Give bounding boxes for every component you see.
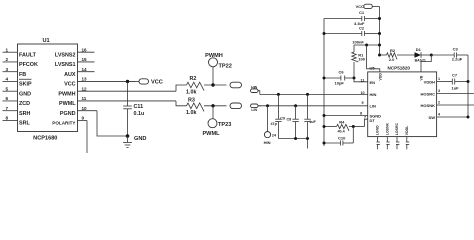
svg-text:PWMH: PWMH <box>58 91 75 97</box>
svg-text:SRH: SRH <box>19 111 30 117</box>
pin 5 GND <box>3 86 32 97</box>
svg-text:GND: GND <box>19 91 31 97</box>
pin VDD top <box>378 73 382 81</box>
svg-text:5: 5 <box>6 86 9 91</box>
pin 14 AUX <box>64 67 94 78</box>
svg-text:1uF: 1uF <box>452 86 460 91</box>
svg-text:NCP1680: NCP1680 <box>33 135 57 141</box>
svg-text:8: 8 <box>360 111 362 115</box>
node VB junction <box>430 54 433 57</box>
capacitor C6 <box>323 69 356 85</box>
pin 1 FAULT <box>3 47 37 58</box>
svg-text:11: 11 <box>82 96 87 101</box>
pin 15 LVSNS1 <box>55 57 95 68</box>
svg-text:C10: C10 <box>338 136 346 141</box>
svg-text:9: 9 <box>82 116 85 121</box>
svg-text:LVSNS1: LVSNS1 <box>55 62 76 68</box>
svg-text:LOSRC: LOSRC <box>395 122 399 135</box>
wire R2 out <box>204 84 227 86</box>
wire R1 row <box>354 44 381 47</box>
pin VDDL bottom <box>405 125 409 149</box>
ground bus <box>307 139 309 149</box>
svg-text:VCC: VCC <box>64 82 75 88</box>
ground GND rail <box>0 0 1 1</box>
flag LIN in <box>251 104 262 112</box>
pin VB top <box>420 75 424 80</box>
svg-text:24: 24 <box>272 133 277 137</box>
svg-text:3: 3 <box>6 67 9 72</box>
svg-text:1: 1 <box>6 47 9 52</box>
pin 10 HIN <box>361 91 377 97</box>
node VCC junction <box>126 80 129 83</box>
pin LOSRC bottom <box>395 122 399 149</box>
svg-text:C3: C3 <box>453 47 459 52</box>
svg-text:1.0k: 1.0k <box>186 89 197 95</box>
svg-text:LVSNS2: LVSNS2 <box>55 52 76 58</box>
wire R2 to D1 <box>397 54 415 56</box>
wire SW vertical <box>467 55 469 117</box>
capacitor C11 <box>123 81 144 136</box>
diode D1 <box>415 47 432 62</box>
capacitor C3 <box>431 47 468 62</box>
wire R3 out <box>204 105 227 107</box>
capacitor C1 <box>324 10 381 26</box>
svg-text:SW: SW <box>429 115 436 120</box>
node R2 junction <box>211 83 214 86</box>
svg-text:FB: FB <box>19 72 26 78</box>
test point TP23 <box>202 106 231 137</box>
svg-text:POLARITY: POLARITY <box>52 120 75 125</box>
capacitor C9 <box>271 93 285 139</box>
pin 7 SRH <box>3 106 31 117</box>
svg-text:14: 14 <box>82 67 88 72</box>
svg-text:4: 4 <box>438 113 441 117</box>
svg-text:2.2uF: 2.2uF <box>452 57 463 62</box>
pin 8 SGND <box>323 111 382 118</box>
pin 8 SRL <box>3 116 31 127</box>
pin 1 VDDH / capacitor C7 <box>424 73 470 91</box>
svg-text:PWML: PWML <box>59 101 76 107</box>
svg-text:HOSNK: HOSNK <box>421 103 436 108</box>
pin 10 PGND <box>60 106 128 136</box>
svg-text:6: 6 <box>6 96 9 101</box>
wire cap bus <box>278 138 307 140</box>
svg-text:U5: U5 <box>370 65 376 70</box>
node bus junction 2 <box>306 137 309 140</box>
node GND junction <box>126 134 130 138</box>
resistor R4 <box>323 119 368 133</box>
pin 2 HOSNK <box>421 101 474 108</box>
svg-text:PFCOK: PFCOK <box>19 62 38 68</box>
pin 4 SKIP <box>3 77 32 88</box>
svg-text:16: 16 <box>82 47 88 52</box>
capacitor C12 <box>304 93 316 139</box>
ground <box>123 136 146 147</box>
resistor R2 gate <box>378 48 397 62</box>
svg-text:40.4: 40.4 <box>338 129 346 133</box>
pin LGND bottom <box>376 125 380 149</box>
svg-text:LGND: LGND <box>376 125 380 135</box>
svg-text:0.1u: 0.1u <box>134 111 145 117</box>
power flag VCC top <box>356 4 380 9</box>
svg-text:VDD: VDD <box>378 73 382 81</box>
pin 6 ZCD <box>3 96 31 107</box>
pin 11 EN <box>361 78 376 84</box>
svg-text:11: 11 <box>361 78 365 82</box>
svg-text:3: 3 <box>438 89 440 93</box>
svg-text:C2: C2 <box>359 25 365 30</box>
svg-text:VDDL: VDDL <box>405 125 409 135</box>
test point TP22 <box>205 53 232 85</box>
flag PWMH out <box>230 82 242 88</box>
svg-text:U1: U1 <box>43 38 50 44</box>
capacitor C10 <box>323 127 354 146</box>
svg-text:LOSNK: LOSNK <box>386 122 390 135</box>
svg-text:13: 13 <box>82 77 88 82</box>
svg-text:EN: EN <box>370 80 376 85</box>
op-amp U5 <box>368 65 437 136</box>
svg-text:HOSRC: HOSRC <box>421 91 436 96</box>
svg-text:1.0k: 1.0k <box>186 110 197 116</box>
pin 13 VCC <box>64 77 135 88</box>
svg-text:47p: 47p <box>271 122 278 126</box>
flag HIN in <box>251 85 260 94</box>
pin 12 PWMH <box>58 85 186 97</box>
svg-text:1uF: 1uF <box>309 120 316 124</box>
node R3 junction <box>211 104 214 107</box>
pin 11 PWML <box>59 96 186 107</box>
svg-text:12: 12 <box>82 86 88 91</box>
wire VDD rail <box>379 6 381 55</box>
svg-text:10: 10 <box>361 91 365 95</box>
svg-text:HIN: HIN <box>370 92 377 97</box>
resistor R3 <box>186 98 204 116</box>
pin 3 FB <box>3 67 27 78</box>
svg-text:C1: C1 <box>359 10 365 15</box>
resistor R2 <box>186 76 204 95</box>
wire GND rail <box>323 19 325 147</box>
svg-text:VCC: VCC <box>151 80 163 86</box>
pin 4 SW <box>429 113 470 120</box>
wire VDD pin path <box>367 45 380 72</box>
svg-text:TP22: TP22 <box>219 64 232 70</box>
wire HIN <box>260 93 368 95</box>
svg-text:1: 1 <box>438 77 440 81</box>
svg-text:C7: C7 <box>452 73 458 78</box>
power flag VCC <box>136 79 163 86</box>
svg-text:SRL: SRL <box>19 121 30 127</box>
svg-text:PGND: PGND <box>60 111 76 117</box>
op-amp U1 <box>18 38 78 141</box>
svg-text:4: 4 <box>6 77 9 82</box>
svg-text:C11: C11 <box>134 104 144 110</box>
svg-text:2.0: 2.0 <box>389 57 395 62</box>
svg-text:GND: GND <box>134 136 146 142</box>
pin 9 LIN <box>362 101 377 108</box>
svg-text:C6: C6 <box>339 69 345 74</box>
svg-text:TP23: TP23 <box>218 122 231 128</box>
flag PWML out <box>230 103 242 109</box>
svg-text:8: 8 <box>6 116 9 121</box>
svg-text:2: 2 <box>6 57 9 62</box>
svg-text:10pF: 10pF <box>335 81 345 86</box>
pin 3 HOSRC <box>421 89 474 96</box>
pin 7 DT <box>364 116 375 123</box>
svg-text:9: 9 <box>362 101 364 105</box>
svg-text:2: 2 <box>438 101 440 105</box>
capacitor C8 <box>287 104 299 138</box>
wire VB pin path <box>421 55 431 72</box>
svg-text:VDDH: VDDH <box>424 79 435 84</box>
svg-text:LIN: LIN <box>370 104 377 109</box>
pin 9 POLARITY <box>52 116 87 153</box>
svg-text:NCP51820: NCP51820 <box>388 65 411 70</box>
svg-text:LIN: LIN <box>251 108 257 112</box>
svg-text:7: 7 <box>6 106 9 111</box>
svg-text:100: 100 <box>358 56 365 61</box>
resistor R1 <box>352 45 366 78</box>
pin 2 PFCOK <box>3 57 38 68</box>
svg-text:FAULT: FAULT <box>19 52 37 58</box>
node bus junction 1 <box>294 137 297 140</box>
svg-text:DT: DT <box>370 118 376 123</box>
svg-text:ZCD: ZCD <box>19 101 30 107</box>
wire LIN <box>258 105 368 107</box>
svg-text:D1: D1 <box>416 47 422 52</box>
svg-text:HIN: HIN <box>264 140 271 145</box>
capacitor C2 <box>323 25 382 44</box>
svg-text:AUX: AUX <box>64 72 76 78</box>
svg-text:100nF: 100nF <box>352 39 364 44</box>
svg-text:10: 10 <box>82 106 88 111</box>
svg-text:15: 15 <box>82 57 88 62</box>
svg-text:SKIP: SKIP <box>19 82 32 88</box>
wire EN jog <box>354 78 368 82</box>
pin 16 LVSNS2 <box>55 47 95 58</box>
svg-text:C9: C9 <box>280 116 285 120</box>
svg-text:VCC: VCC <box>356 4 365 9</box>
svg-text:C8: C8 <box>287 118 292 122</box>
test point TP24 <box>264 104 277 145</box>
svg-text:R2: R2 <box>190 76 197 82</box>
svg-text:PWML: PWML <box>202 131 220 137</box>
svg-text:R4: R4 <box>339 120 345 125</box>
pin LOSNK bottom <box>386 122 390 149</box>
